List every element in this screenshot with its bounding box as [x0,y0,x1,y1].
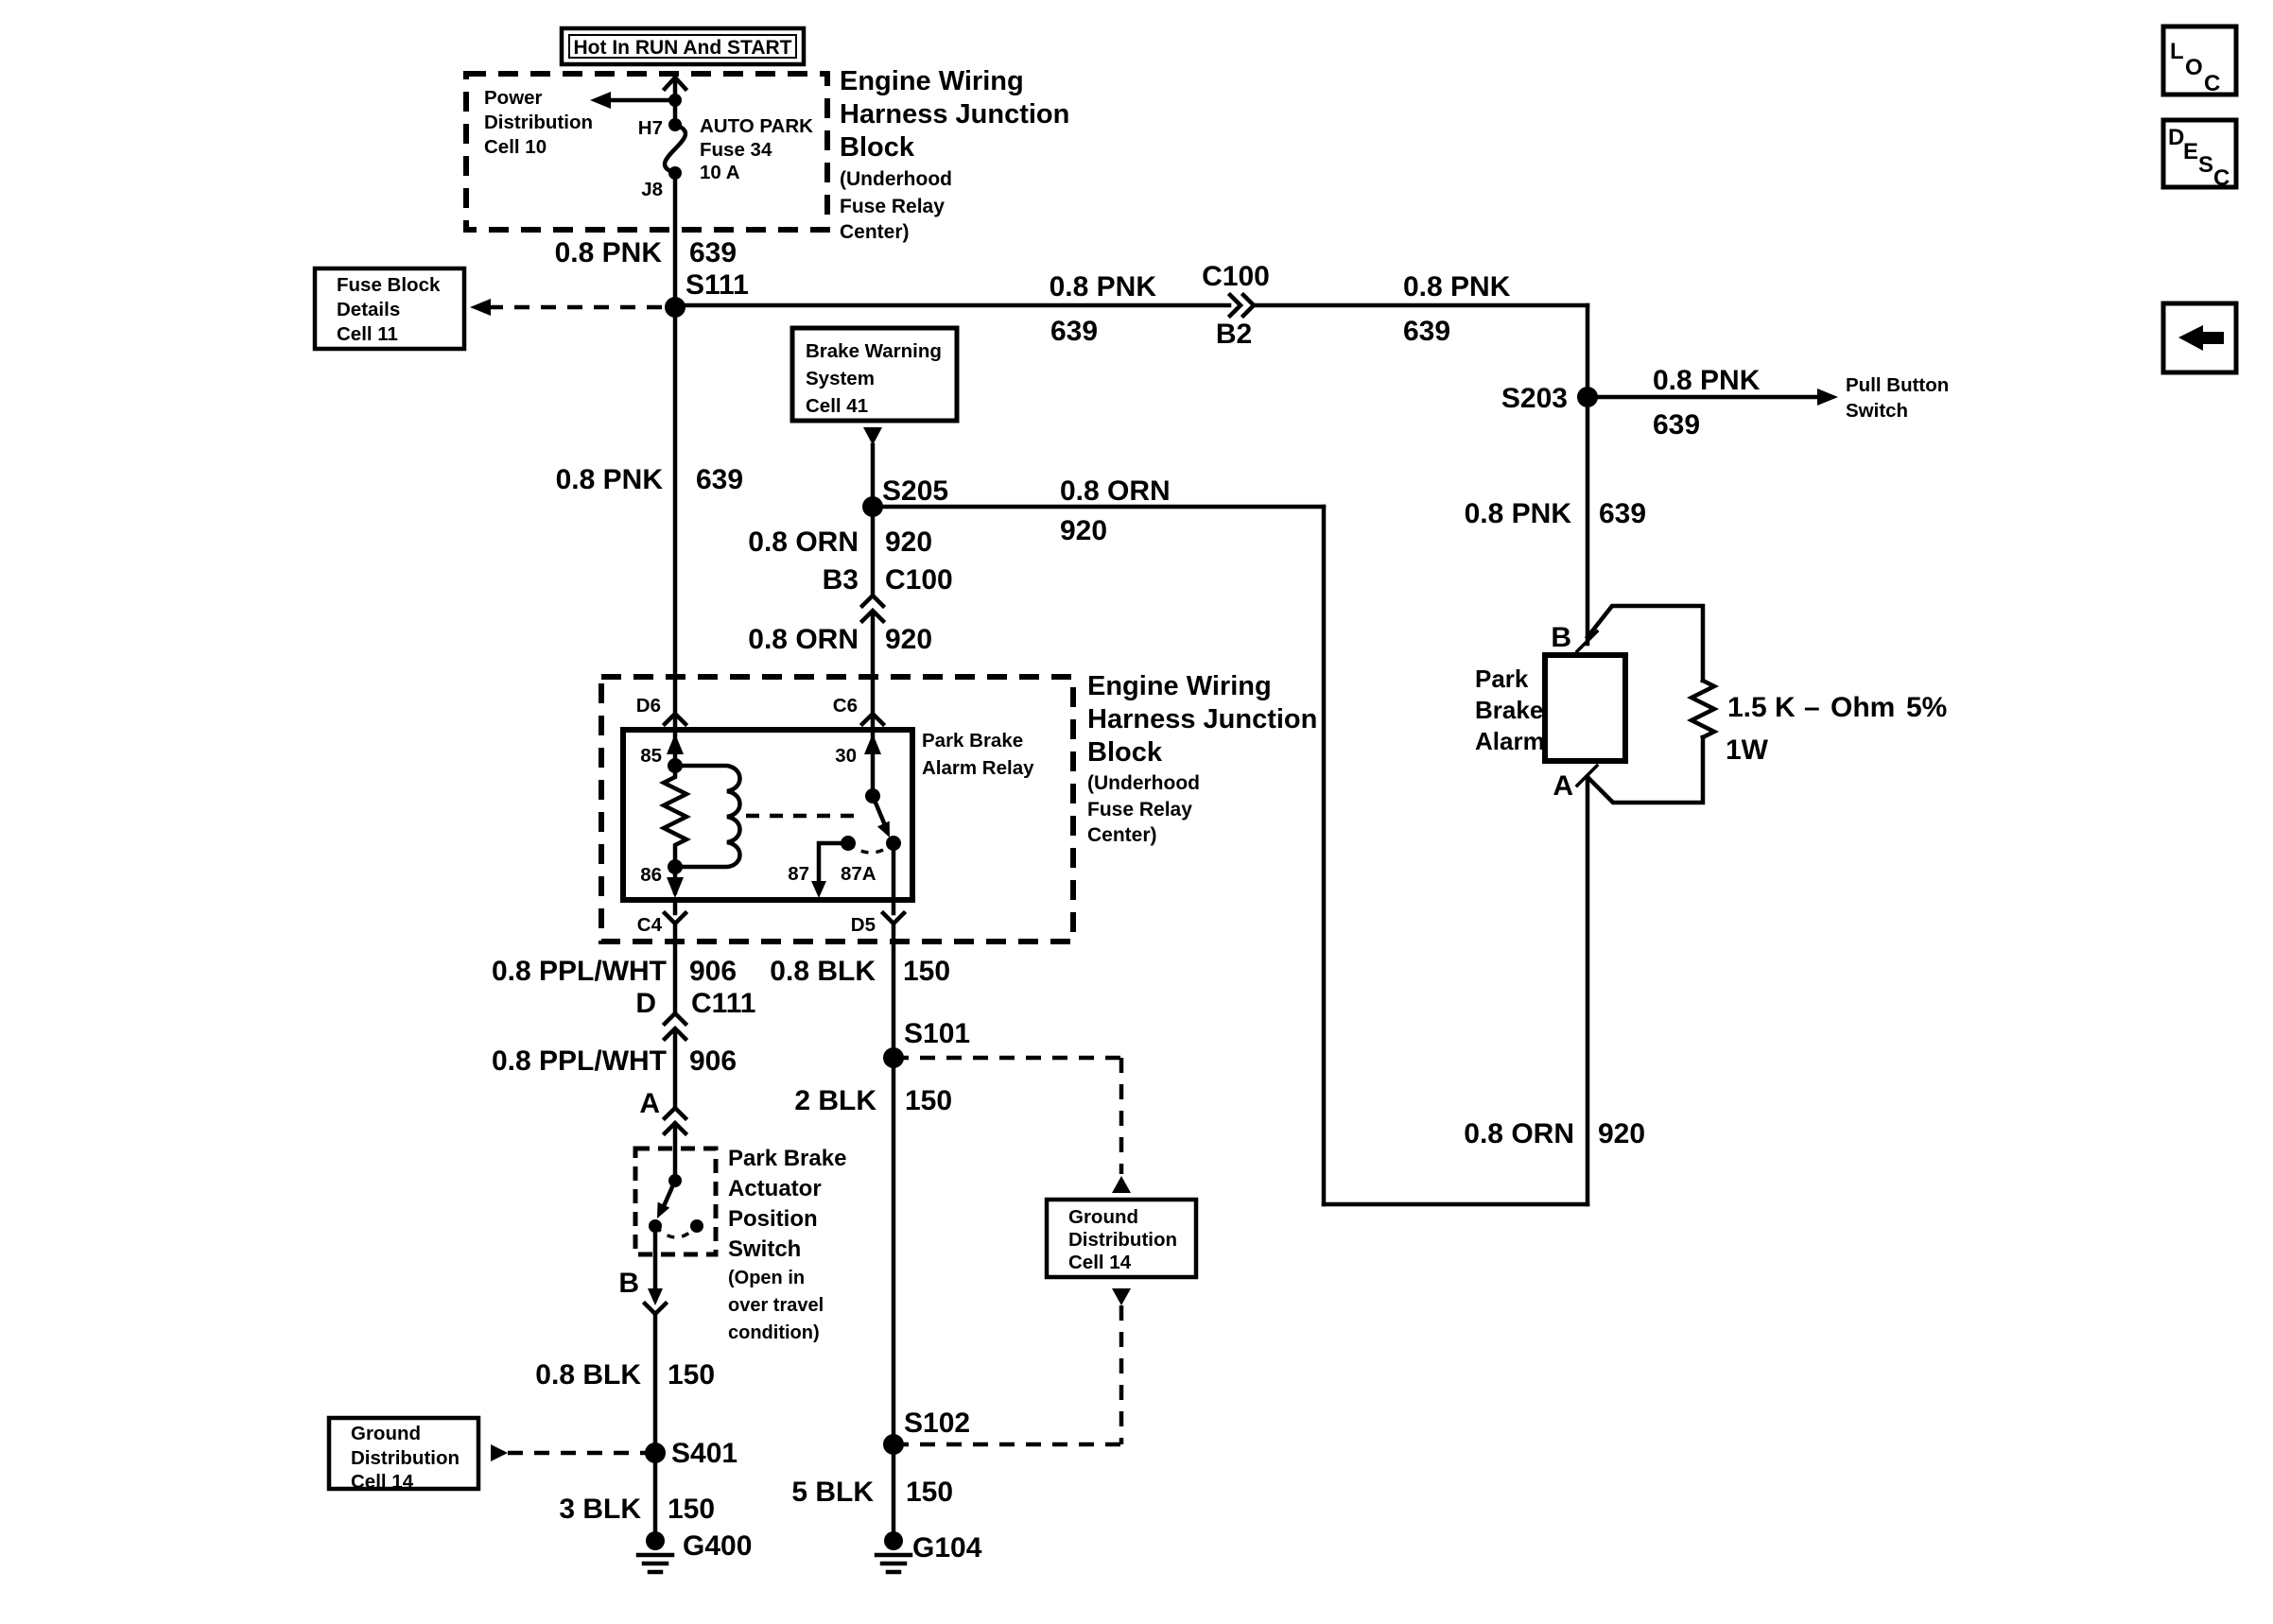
wire: S205 down to C100 B3 [871,507,876,596]
dashed: ground distribution down to S102 [1112,1288,1131,1305]
dashed box: engine wiring harness junction block (relay) [601,677,1073,942]
svg-text:D: D [635,988,656,1019]
svg-text:1.5 K: 1.5 K [1727,692,1796,723]
svg-text:Switch: Switch [1846,400,1908,422]
svg-text:639: 639 [1050,316,1098,347]
svg-text:Engine Wiring: Engine Wiring [1087,671,1272,701]
svg-text:C111: C111 [691,988,755,1019]
wire: alarm A down to ORN corner [1586,777,1590,1204]
dashed arc switch travel [655,1226,697,1237]
svg-text:0.8 BLK: 0.8 BLK [535,1359,641,1391]
wire: corner down to S203 [1586,305,1590,397]
svg-text:Position: Position [728,1206,818,1232]
svg-text:0.8 PNK: 0.8 PNK [556,464,664,495]
ground G104 [884,1531,903,1550]
svg-text:Details: Details [337,299,400,320]
node S102 [883,1434,904,1455]
svg-text:A: A [1553,770,1573,802]
connector C100 B3 (inline) [862,596,883,606]
svg-text:150: 150 [905,1085,952,1116]
svg-text:Pull Button: Pull Button [1846,374,1949,396]
svg-text:Power: Power [484,87,543,109]
resistor branch bottom [1588,737,1703,803]
relay pin 87A down to D5 [892,843,896,900]
svg-text:87A: 87A [841,863,876,885]
svg-text:87: 87 [788,863,809,885]
svg-text:System: System [806,368,875,389]
svg-text:920: 920 [1060,515,1107,546]
svg-text:(Underhood: (Underhood [840,168,952,190]
svg-text:Ground: Ground [1068,1206,1138,1228]
svg-text:0.8 ORN: 0.8 ORN [748,624,859,655]
svg-text:(Underhood: (Underhood [1087,772,1200,794]
label box: Ground Distribution Cell 14 (right) [1047,1200,1196,1277]
connector C100 B2 (inline) [1230,295,1241,316]
wire: relay D5 down to S101 [892,924,896,1058]
relay contact 87A [886,836,901,851]
svg-text:G400: G400 [683,1530,752,1562]
svg-text:A: A [639,1088,660,1119]
svg-text:3 BLK: 3 BLK [559,1494,641,1525]
label box: Ground Distribution Cell 14 (left) [329,1418,478,1489]
svg-text:C: C [2204,71,2220,96]
svg-text:1W: 1W [1726,734,1769,766]
svg-text:Engine Wiring: Engine Wiring [840,66,1024,96]
node S203 [1577,387,1598,407]
svg-text:Block: Block [840,132,915,163]
svg-text:639: 639 [1599,498,1646,529]
wire: hot feed into fuse block [673,79,678,125]
svg-text:G104: G104 [912,1532,982,1564]
wire: S111 down to relay D6 [673,307,678,714]
svg-text:150: 150 [906,1477,953,1508]
svg-text:J8: J8 [641,179,663,200]
dashed link coil to armature [746,814,857,819]
svg-text:2 BLK: 2 BLK [794,1085,876,1116]
svg-text:0.8 PNK: 0.8 PNK [1465,498,1572,529]
wire: S111 right to C100 [675,303,1229,308]
svg-text:0.8 PPL/WHT: 0.8 PPL/WHT [492,956,667,987]
svg-text:Fuse Block: Fuse Block [337,274,441,296]
resistor 1.5 K-Ohm 1W [1692,681,1714,737]
wire: switch B down [653,1226,658,1293]
svg-text:0.8 PPL/WHT: 0.8 PPL/WHT [492,1045,667,1077]
ground G400 [646,1531,665,1550]
svg-text:condition): condition) [728,1322,820,1343]
svg-text:639: 639 [1403,316,1450,347]
switch blade [664,1181,675,1206]
wire: branch to power distribution [611,98,675,103]
svg-text:C6: C6 [833,695,858,717]
svg-text:S111: S111 [685,269,749,301]
svg-text:Actuator: Actuator [728,1176,822,1201]
svg-text:C: C [2213,165,2230,191]
svg-text:5 BLK: 5 BLK [791,1477,874,1508]
svg-text:Distribution: Distribution [1068,1229,1177,1251]
svg-text:Cell 11: Cell 11 [337,323,398,345]
svg-text:(Open in: (Open in [728,1268,805,1288]
svg-text:S401: S401 [671,1438,737,1469]
svg-text:150: 150 [668,1494,715,1525]
svg-text:920: 920 [885,527,932,558]
wire: fuse J8 down to S111 [673,173,678,307]
svg-text:H7: H7 [638,117,663,139]
svg-text:Cell 14: Cell 14 [351,1471,414,1493]
svg-text:S102: S102 [904,1408,970,1439]
wire: S205 right (0.8 ORN 920) [873,505,1324,510]
node S101 [883,1047,904,1068]
svg-text:Cell 14: Cell 14 [1068,1252,1132,1273]
dashed box: underhood fuse block (power distribution) [466,74,827,230]
svg-text:B2: B2 [1216,319,1252,350]
svg-text:Brake: Brake [1475,696,1543,724]
resistor branch top [1588,606,1703,681]
wire: brake warning to S205 [871,445,876,507]
svg-text:Harness Junction: Harness Junction [840,99,1069,130]
node S205 [862,496,883,517]
wire: C4 down to C111 [673,924,678,1013]
arrow to Power Distribution [590,92,611,109]
svg-text:D6: D6 [636,695,661,717]
svg-text:920: 920 [1598,1118,1645,1149]
svg-text:639: 639 [689,237,737,268]
node H7 [668,118,682,131]
relay coil [675,766,740,867]
svg-text:150: 150 [903,956,950,987]
wire: S401 to G400 [653,1453,658,1533]
svg-text:O: O [2185,55,2203,80]
wire: ORN bottom to alarm A [1324,1202,1588,1207]
svg-text:0.8 PNK: 0.8 PNK [555,237,663,268]
svg-text:Ohm: Ohm [1831,692,1895,723]
dashed arrow: ground distribution to S401 [491,1444,508,1461]
svg-text:Center): Center) [840,221,910,243]
svg-text:0.8 PNK: 0.8 PNK [1050,271,1157,302]
svg-text:AUTO PARK: AUTO PARK [700,115,813,137]
svg-text:Brake Warning: Brake Warning [806,340,942,362]
svg-text:Park: Park [1475,665,1529,693]
dashed box: park brake actuator position switch [635,1149,716,1254]
relay pin 86 [668,859,683,874]
fuse F34: AUTO PARK Fuse 34 10 A [665,125,685,173]
svg-text:86: 86 [640,864,662,886]
svg-text:Fuse Relay: Fuse Relay [1087,799,1192,821]
svg-text:0.8 BLK: 0.8 BLK [770,956,876,987]
wire: S203 down to alarm B [1586,397,1590,644]
svg-text:0.8 ORN: 0.8 ORN [1060,475,1171,507]
back arrow box [2163,303,2236,372]
svg-text:D5: D5 [851,914,876,936]
svg-text:0.8 ORN: 0.8 ORN [748,527,859,558]
svg-text:Hot In RUN And START: Hot In RUN And START [574,37,792,59]
svg-text:10 A: 10 A [700,162,740,183]
svg-text:Distribution: Distribution [351,1447,460,1469]
svg-text:C100: C100 [885,564,953,596]
dashed arrow: S111 to fuse block details [488,305,675,310]
node S401 [645,1443,666,1463]
svg-text:85: 85 [640,745,662,767]
svg-text:Cell 41: Cell 41 [806,395,868,417]
arrow up to Hot In RUN And START [665,78,685,89]
DESC box [2163,120,2236,187]
svg-text:920: 920 [885,624,932,655]
svg-text:D: D [2168,125,2184,150]
svg-text:Alarm Relay: Alarm Relay [922,757,1034,779]
svg-text:150: 150 [668,1359,715,1391]
switch contact (open position) [690,1219,703,1233]
svg-text:Park Brake: Park Brake [922,730,1023,752]
relay armature (switch arm) [873,796,885,825]
svg-text:over travel: over travel [728,1295,824,1316]
relay coil resistor [664,766,686,867]
svg-text:0.8 ORN: 0.8 ORN [1464,1118,1574,1149]
park brake alarm box [1545,655,1625,761]
relay pin 30 [871,730,876,796]
svg-text:B3: B3 [823,564,859,596]
svg-text:Ground: Ground [351,1423,421,1444]
svg-text:B: B [1551,622,1571,653]
node S111 [665,297,685,318]
dashed: S101 to ground distribution (right) [894,1056,1121,1061]
svg-text:Park Brake: Park Brake [728,1146,846,1171]
relay box: Park Brake Alarm Relay [623,730,912,900]
svg-text:L: L [2170,39,2184,64]
svg-text:Harness Junction: Harness Junction [1087,704,1317,734]
svg-text:30: 30 [835,745,857,767]
wire: S101 to S102 [892,1058,896,1444]
svg-text:0.8 PNK: 0.8 PNK [1653,365,1761,396]
svg-text:Center): Center) [1087,824,1157,846]
wire: S102 to G104 [892,1444,896,1533]
svg-text:B: B [618,1268,639,1299]
svg-text:Fuse Relay: Fuse Relay [840,196,945,217]
switch pivot [668,1174,682,1187]
svg-text:Switch: Switch [728,1236,801,1262]
relay pin 85 [673,730,678,766]
LOC box [2163,26,2236,95]
svg-text:S203: S203 [1501,383,1568,414]
label box: Fuse Block Details Cell 11 [315,268,464,349]
svg-text:S: S [2198,152,2213,178]
svg-text:E: E [2183,139,2198,164]
svg-text:639: 639 [1653,409,1700,441]
svg-text:Block: Block [1087,737,1163,768]
svg-text:0.8 PNK: 0.8 PNK [1403,271,1511,302]
svg-text:Distribution: Distribution [484,112,593,133]
svg-text:S101: S101 [904,1018,970,1049]
svg-text:S205: S205 [882,475,948,507]
svg-text:906: 906 [689,1045,737,1077]
svg-text:906: 906 [689,956,737,987]
svg-text:Fuse 34: Fuse 34 [700,139,772,161]
svg-text:C100: C100 [1202,261,1270,292]
relay contact 87 [841,836,856,851]
node: feed junction [668,94,682,107]
dashed arc 87 to 87A [848,843,894,853]
svg-text:Cell 10: Cell 10 [484,136,547,158]
svg-text:–: – [1804,692,1820,723]
node J8 [668,166,682,180]
arrow into brake warning system [863,427,882,445]
wire: S203 to pull button switch [1588,395,1820,400]
svg-text:C4: C4 [637,914,663,936]
svg-text:639: 639 [696,464,743,495]
label box: Brake Warning System Cell 41 [792,328,957,421]
label box: Hot In RUN And START [562,28,804,64]
switch contact B [649,1219,662,1233]
svg-text:5%: 5% [1906,692,1947,723]
wire: ORN down right side [1322,507,1327,1204]
svg-text:Alarm: Alarm [1475,727,1545,755]
